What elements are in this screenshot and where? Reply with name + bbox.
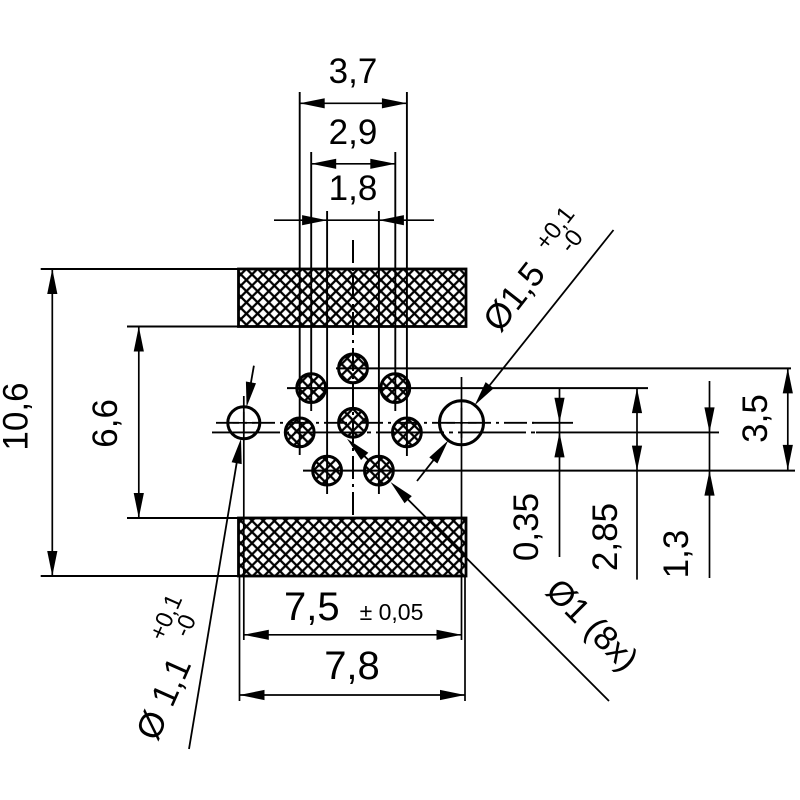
svg-text:3,5: 3,5: [736, 394, 775, 443]
svg-text:3,7: 3,7: [329, 52, 378, 91]
svg-text:2,9: 2,9: [329, 113, 378, 152]
svg-text:10,6: 10,6: [0, 382, 36, 450]
svg-text:1,3: 1,3: [657, 530, 696, 579]
svg-text:7,8: 7,8: [324, 644, 380, 688]
svg-text:1,8: 1,8: [329, 169, 378, 208]
svg-text:6,6: 6,6: [86, 399, 125, 448]
svg-text:2,85: 2,85: [586, 503, 625, 571]
svg-text:0,35: 0,35: [507, 493, 546, 561]
